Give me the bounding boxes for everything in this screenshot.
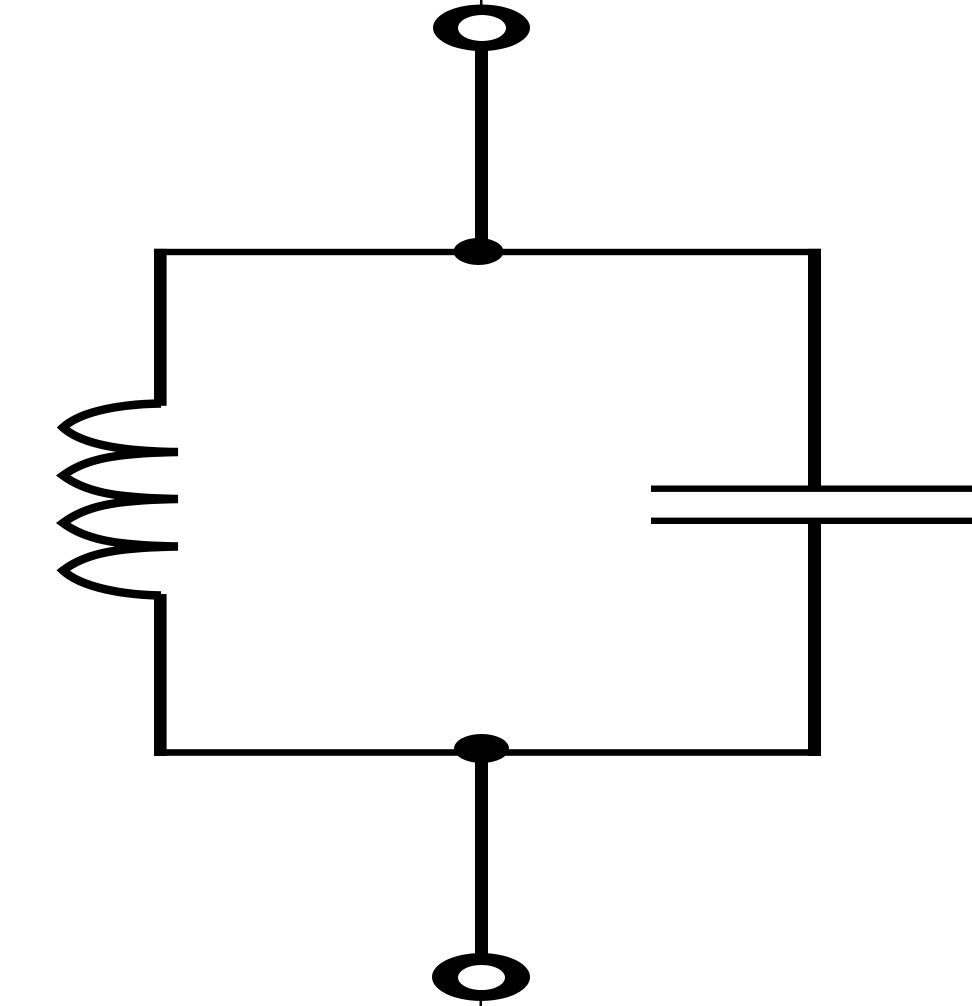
terminal T2 (bottom) <box>432 953 530 1006</box>
wire: top terminal to top node <box>475 49 488 252</box>
wire: left vertical lower <box>154 594 167 756</box>
node: top junction <box>454 238 504 265</box>
wire: right vertical lower <box>808 524 821 756</box>
node: bottom junction <box>454 734 509 763</box>
wire: right vertical upper <box>808 249 821 486</box>
inductor L1 <box>63 404 178 596</box>
wire: bottom rail <box>154 749 821 756</box>
wire: top rail <box>154 249 821 255</box>
terminal T1 (top) <box>433 0 530 51</box>
wire: left vertical upper <box>154 249 167 406</box>
wire: bottom node to bottom terminal <box>475 755 488 955</box>
capacitor C1 <box>651 486 972 525</box>
